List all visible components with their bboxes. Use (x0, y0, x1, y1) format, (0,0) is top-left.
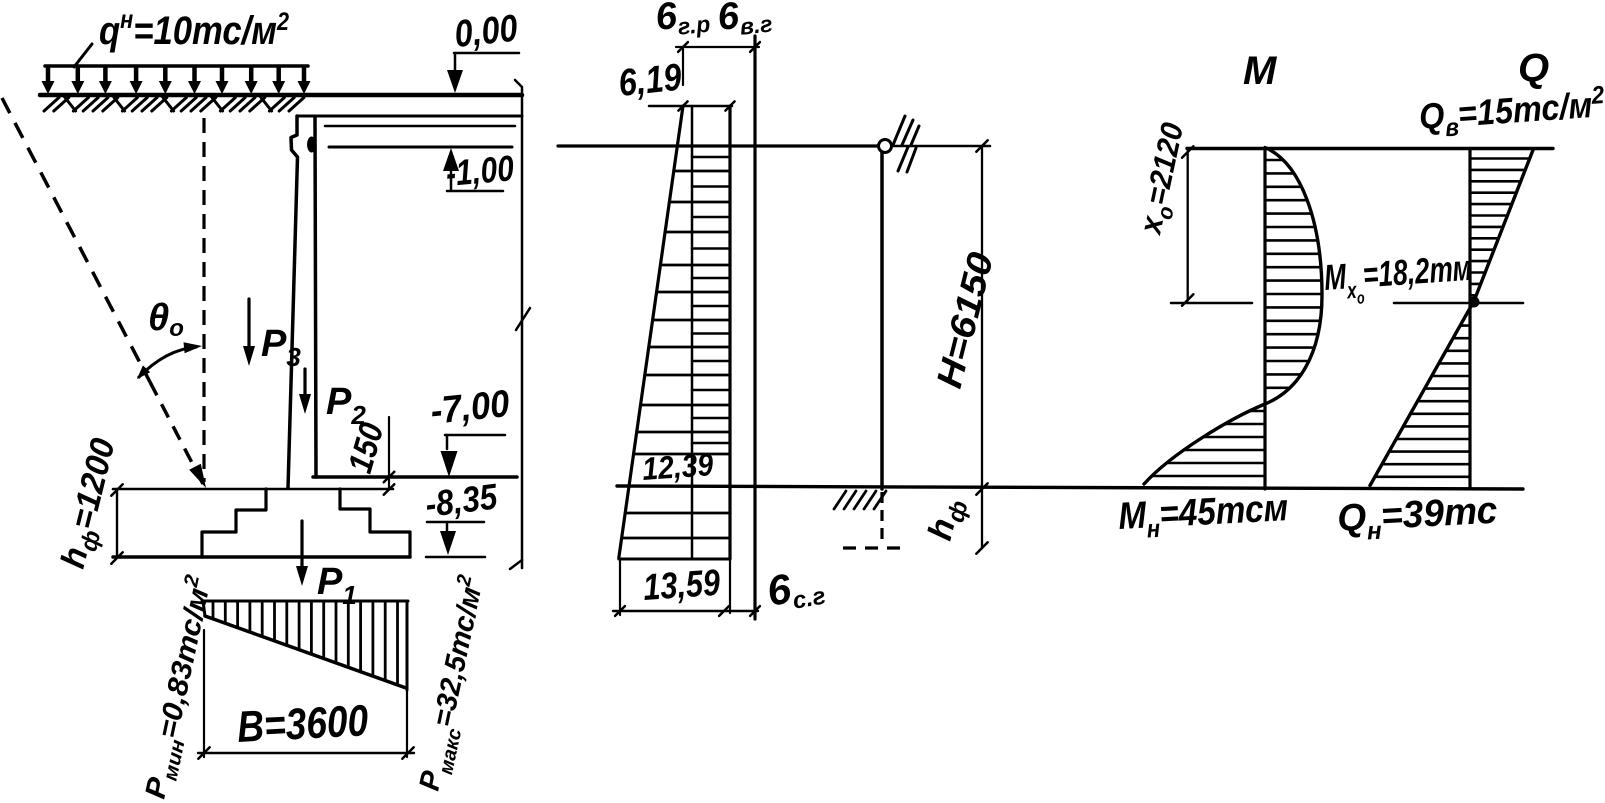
top level line of M and Q diagrams (1187, 147, 1553, 150)
sigma axis vertical line (753, 36, 756, 619)
label P1 (317, 561, 357, 610)
elevation mark -8,35 (423, 475, 500, 557)
label x0=2120 rotated (1132, 120, 1196, 240)
label P_max rotated (410, 573, 498, 795)
label Qn=39tc (1336, 490, 1498, 547)
label sigma_vg (716, 0, 774, 42)
svg-text:-7,00: -7,00 (429, 383, 512, 433)
trapezoid left sloped edge (619, 106, 683, 558)
pin circle at column top (879, 140, 892, 153)
floor slab middle line (325, 125, 515, 128)
pressure diagram left cap (203, 601, 205, 616)
Q diagram hatching lower triangle (1375, 313, 1469, 477)
svg-text:13,59: 13,59 (642, 562, 722, 608)
break mark on section line (516, 308, 530, 330)
dimension h_f=1200 line with ticks (111, 484, 122, 563)
trapezoid inner vertical line (691, 106, 694, 559)
trapezoid right edge (728, 106, 731, 559)
trapezoid bottom edge (619, 558, 730, 561)
corbel joint blob (307, 137, 316, 153)
label Mx0=18,2tm (1323, 247, 1474, 310)
dimension B=3600 line with ticks (198, 747, 414, 758)
distributed load arrows (42, 68, 311, 94)
main level line at column top (558, 144, 878, 147)
support hatches at column top (893, 116, 919, 172)
dimension 150 line with ticks (384, 417, 395, 495)
soil hatching below ground line (44, 97, 304, 111)
dimension H=6150 line with ticks (976, 140, 987, 553)
wall outer face with corbel (288, 116, 298, 488)
top small dimension line (676, 42, 760, 85)
inclined dashed line (slip plane) (2, 98, 150, 382)
Q diagram axis (1468, 149, 1471, 489)
dashed column continuation below floor (880, 492, 883, 546)
arrowhead at end of inclined dashed line (189, 464, 206, 488)
M diagram hatching upper bulge (1265, 160, 1321, 388)
leader line from q label to load band (74, 44, 92, 67)
svg-text:12,39: 12,39 (641, 446, 715, 487)
footing top line (113, 488, 393, 491)
ground surface line (40, 93, 522, 98)
support hatches at column bottom (834, 491, 886, 509)
M diagram axis (1263, 149, 1266, 490)
svg-text:-1,00: -1,00 (444, 147, 515, 194)
label 12,39 (641, 446, 715, 487)
footing bottom line (113, 555, 410, 559)
dashed bottom level line (843, 546, 900, 549)
label M (1243, 49, 1278, 93)
label h_f=1200 rotated (54, 435, 129, 574)
short line at x0 level left of M axis (1171, 302, 1252, 305)
label H=6150 rotated (928, 248, 1001, 392)
footing left steps (202, 489, 266, 557)
label q surcharge load value (99, 6, 289, 53)
hook at bottom of section line (510, 560, 522, 569)
label 13,59 (642, 562, 722, 608)
level line right of pin (892, 145, 990, 148)
long base line through column foot and M,Q diagrams (617, 486, 1523, 489)
pressure diagram diagonal (205, 616, 406, 688)
bottom dimension line of trapezoid (613, 559, 760, 616)
soil pressure diagram under footing: top edge (202, 600, 408, 603)
elevation mark -1,00 (443, 147, 515, 194)
force arrow P2 (299, 369, 311, 414)
label P2 (326, 381, 366, 430)
label Mn=45tcm (1117, 487, 1289, 545)
svg-text:6,19: 6,19 (617, 57, 684, 105)
footing right steps (340, 489, 410, 556)
floor slab bottom line (329, 146, 512, 149)
label Q (1518, 46, 1549, 90)
M diagram hatching lower bulge (1153, 411, 1265, 476)
vertical dashed line (axis) (202, 118, 205, 482)
label P_min rotated (136, 573, 224, 803)
distributed load band top line (45, 64, 308, 68)
M diagram curve (1144, 148, 1322, 485)
label P3 (261, 323, 301, 372)
Q diagram hatching upper triangle (1471, 159, 1530, 296)
basement floor line (313, 475, 517, 479)
elevation mark -7,00 (429, 383, 512, 477)
level line at Mx0 with dot on Q axis (1394, 297, 1523, 308)
svg-text:Q: Q (1518, 46, 1549, 90)
svg-text:В=3600: В=3600 (236, 696, 370, 752)
wall inner face (315, 117, 316, 477)
label theta0 (148, 297, 184, 342)
force arrow P1 (296, 521, 308, 586)
label 6,19 (617, 57, 684, 105)
column vertical line (880, 152, 884, 489)
label 150 rotated (341, 419, 391, 478)
dimension B=3600 extension lines (204, 630, 407, 757)
svg-text:М: М (1243, 49, 1278, 93)
label B=3600 (236, 696, 370, 752)
svg-text:0,00: 0,00 (453, 8, 520, 56)
dimension x0=2120 line with ticks (1182, 146, 1193, 305)
angle arc theta0 (138, 347, 197, 378)
force arrow P3 (243, 299, 255, 366)
pressure trapezoid top edge (649, 101, 735, 110)
trapezoid horizontal hatching (622, 157, 730, 538)
pressure diagram right edge (406, 601, 409, 690)
label sigma_gr (654, 0, 712, 42)
floor slab top line (297, 115, 522, 118)
label h_f rotated (921, 494, 974, 545)
Q diagram curve (1370, 150, 1533, 486)
label Qv=15 (1418, 81, 1605, 144)
pressure diagram vertical hatching (213, 603, 398, 685)
elevation mark 0,00 (447, 8, 520, 93)
right section break line (515, 80, 522, 568)
label sigma_sg (763, 559, 827, 619)
